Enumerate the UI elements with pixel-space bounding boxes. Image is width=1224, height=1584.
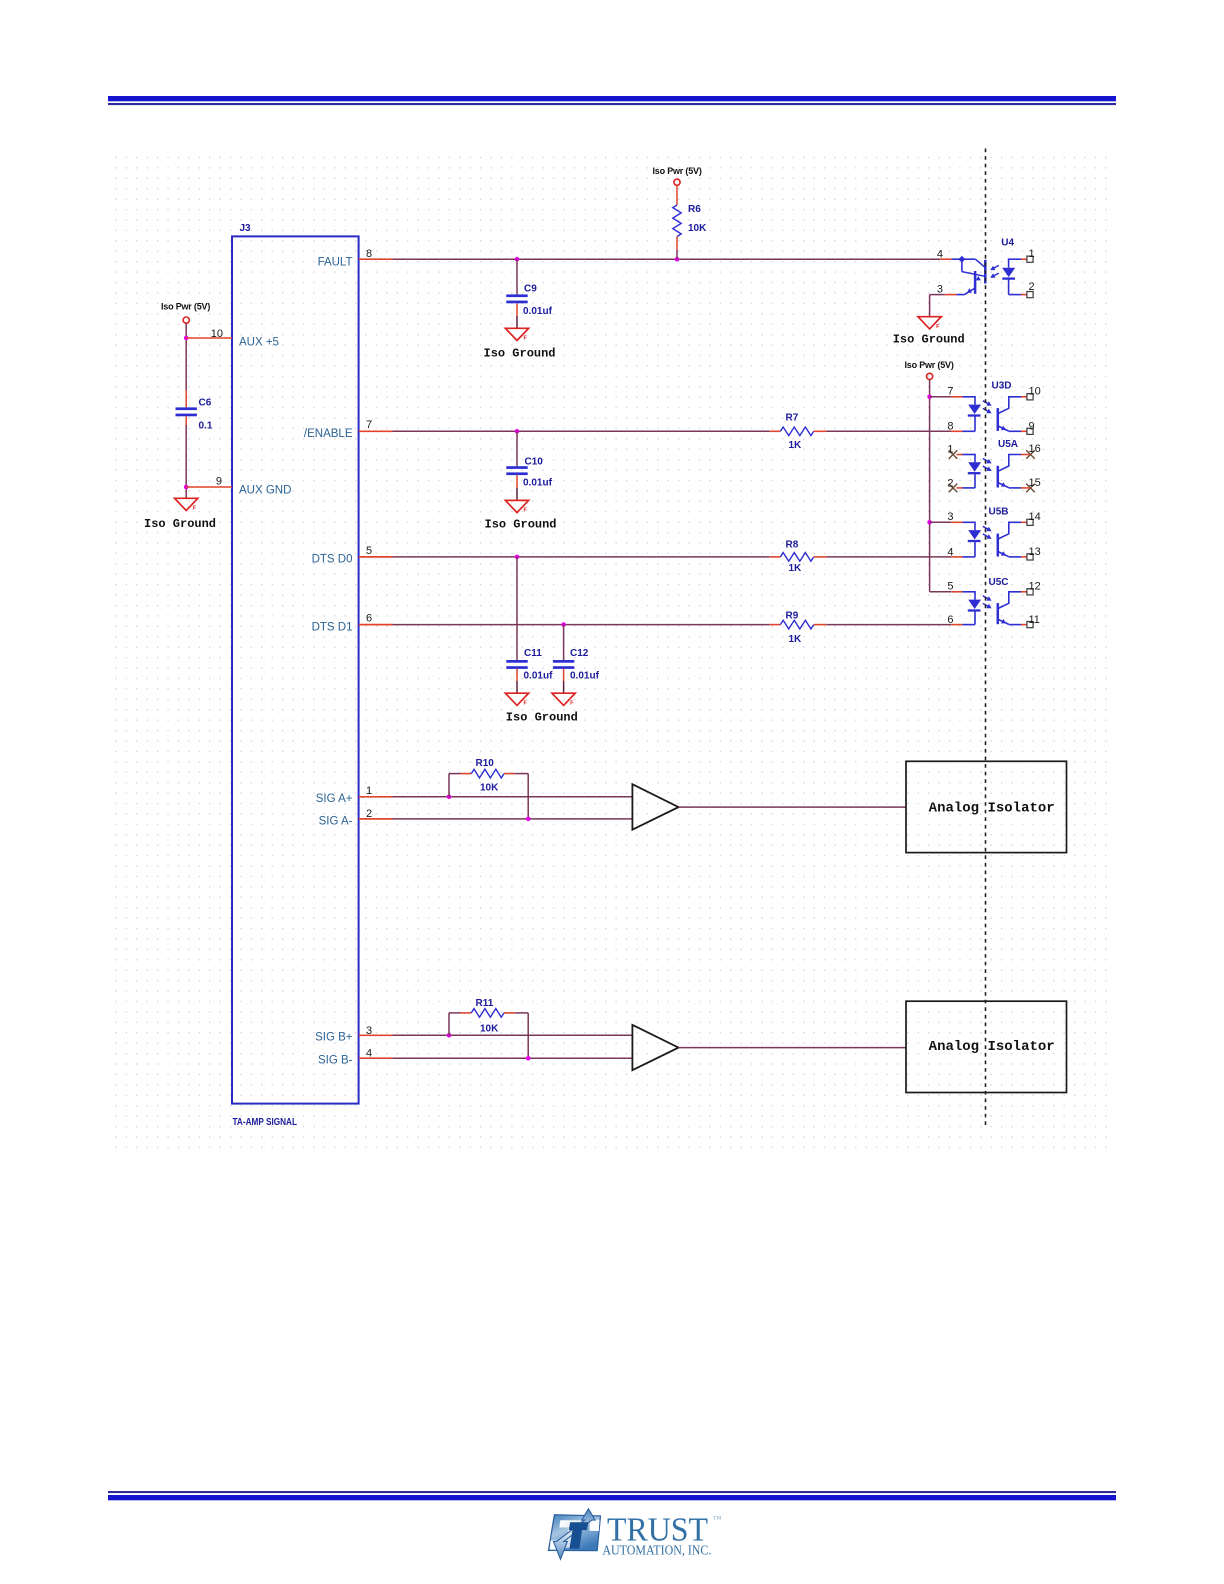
svg-text:16: 16 bbox=[1029, 443, 1041, 455]
pin 15 of U5A bbox=[1021, 487, 1027, 489]
wire U4 pin 3 to ground bbox=[957, 294, 965, 296]
svg-text:AUTOMATION, INC.: AUTOMATION, INC. bbox=[602, 1542, 711, 1557]
svg-text:4: 4 bbox=[947, 546, 953, 558]
phototransistor of U4 bbox=[952, 258, 976, 260]
resistor R11 bbox=[461, 1012, 472, 1014]
svg-text:FAULT: FAULT bbox=[318, 256, 353, 268]
capacitor C11 bbox=[506, 660, 527, 663]
no-connect X at pin (U5A) bbox=[949, 484, 958, 493]
svg-text:1: 1 bbox=[947, 443, 953, 455]
svg-text:R6: R6 bbox=[688, 204, 701, 215]
svg-text:0.01uf: 0.01uf bbox=[570, 670, 600, 681]
phototransistor of U5C bbox=[997, 603, 1000, 624]
pin stub 4 of U5B bbox=[951, 556, 962, 558]
pin 12 of U5C bbox=[1021, 591, 1027, 593]
light arrows of U5A bbox=[983, 459, 990, 463]
svg-text:Iso Ground: Iso Ground bbox=[144, 517, 216, 531]
svg-text:U5C: U5C bbox=[989, 577, 1009, 588]
node FAULT/C9 junction bbox=[515, 257, 520, 262]
capacitor C12 bbox=[553, 660, 574, 663]
node FAULT/R6 junction bbox=[675, 257, 680, 262]
isolation boundary dashed line bbox=[985, 149, 987, 1129]
wire /ENABLE net left bbox=[393, 430, 770, 432]
svg-text:C12: C12 bbox=[570, 648, 589, 659]
wire DTS D0 net right bbox=[826, 556, 951, 558]
svg-text:0.01uf: 0.01uf bbox=[524, 670, 554, 681]
node AUX +5 junction bbox=[184, 336, 189, 341]
svg-text:13: 13 bbox=[1029, 546, 1041, 558]
op-amp A bbox=[632, 784, 678, 830]
svg-text:6: 6 bbox=[947, 614, 953, 626]
pin stub 6 of U5C bbox=[951, 624, 962, 626]
svg-text:Analog Isolator: Analog Isolator bbox=[929, 1039, 1055, 1055]
wire C9 to ground bbox=[516, 303, 518, 316]
svg-text:TM: TM bbox=[713, 1516, 721, 1522]
no-connect X at pin (U5A) bbox=[1026, 484, 1035, 493]
pin 16 of U5A bbox=[1021, 454, 1027, 456]
pin square 9 of U3D bbox=[1027, 428, 1033, 434]
light arrows of U5C bbox=[983, 596, 990, 600]
svg-text:Iso Pwr (5V): Iso Pwr (5V) bbox=[161, 301, 210, 311]
LED of U5C bbox=[963, 591, 976, 593]
wire rail to U5C pin 5 bbox=[930, 591, 952, 593]
wire C10 to ground bbox=[516, 475, 518, 488]
pin 11 of U5C bbox=[1021, 624, 1027, 626]
capacitor C9 bbox=[506, 294, 527, 297]
pin stub of J3 bbox=[359, 430, 393, 432]
pin stub of J3 bbox=[359, 1034, 393, 1036]
wire rail to U5B pin 3 bbox=[930, 521, 952, 523]
resistor R8 bbox=[770, 556, 781, 558]
no-connect X at pin (U5A) bbox=[1026, 450, 1035, 459]
wire Iso Pwr rail bbox=[929, 380, 931, 592]
svg-text:0.01uf: 0.01uf bbox=[523, 478, 553, 489]
wire FAULT stub to U4 pin 4 bbox=[940, 258, 951, 260]
pin stub of J3 bbox=[359, 624, 393, 626]
svg-text:14: 14 bbox=[1029, 511, 1041, 523]
wire pin 10 AUX +5 bbox=[186, 337, 232, 339]
wire pin 9 AUX GND bbox=[186, 486, 232, 488]
svg-text:7: 7 bbox=[947, 386, 953, 398]
node SIG B+/R11 junction bbox=[447, 1033, 452, 1038]
node /ENABLE-C10 junction bbox=[515, 429, 520, 434]
pin stub of J3 bbox=[359, 556, 393, 558]
node rail/U3D pin7 junction bbox=[927, 395, 932, 400]
wire DTS D1 net left bbox=[393, 624, 770, 626]
node DTS D1/C12 junction bbox=[561, 622, 566, 627]
wire DTS D1 to C12 bbox=[563, 625, 565, 660]
svg-text:U4: U4 bbox=[1001, 237, 1014, 248]
node SIG A+/R10 junction bbox=[447, 795, 452, 800]
pin square 11 of U5C bbox=[1027, 622, 1033, 628]
pin stub 2 of U5A bbox=[957, 487, 963, 489]
svg-text:C10: C10 bbox=[525, 457, 544, 468]
ground symbol C10 bbox=[505, 500, 528, 512]
block Analog Isolator B bbox=[906, 1001, 1067, 1092]
wire C12 to ground bbox=[563, 669, 565, 681]
pin stub 8 of U3D bbox=[951, 430, 962, 432]
wire SIG A- net bbox=[393, 818, 633, 820]
svg-text:U5B: U5B bbox=[989, 507, 1009, 518]
svg-text:5: 5 bbox=[366, 545, 372, 557]
ground symbol C11 bbox=[505, 693, 528, 705]
pin 13 of U5B bbox=[1021, 556, 1027, 558]
svg-text:10K: 10K bbox=[480, 1024, 499, 1035]
resistor R7 bbox=[770, 430, 781, 432]
node SIG A-/R10 junction bbox=[526, 817, 531, 822]
wire R10 left leg bbox=[448, 774, 450, 797]
wire op-amp B output bbox=[679, 1047, 907, 1049]
node SIG B-/R11 junction bbox=[526, 1056, 531, 1061]
svg-text:12: 12 bbox=[1029, 580, 1041, 592]
wire DTS D1 net right bbox=[826, 624, 951, 626]
svg-text:11: 11 bbox=[1029, 614, 1040, 626]
svg-text:9: 9 bbox=[1029, 421, 1035, 433]
svg-text:10K: 10K bbox=[688, 223, 707, 234]
svg-text:SIG A+: SIG A+ bbox=[316, 793, 353, 805]
wire R11 right leg bbox=[515, 1012, 529, 1014]
svg-text:5: 5 bbox=[947, 581, 953, 593]
wire SIG B- net bbox=[393, 1057, 633, 1059]
page grid background bbox=[112, 151, 1114, 1151]
pin 14 of U5B bbox=[1021, 521, 1027, 523]
connector J3 bbox=[232, 236, 359, 1103]
svg-text:1: 1 bbox=[366, 785, 372, 797]
phototransistor of U3D bbox=[997, 408, 1000, 431]
phototransistor of U5B bbox=[997, 534, 1000, 557]
svg-text:C11: C11 bbox=[524, 648, 542, 659]
pin 9 of U3D bbox=[1021, 430, 1027, 432]
svg-text:1: 1 bbox=[1029, 248, 1035, 260]
wire SIG A+ net bbox=[393, 796, 633, 798]
op-amp B bbox=[632, 1025, 678, 1070]
resistor R6 bbox=[673, 205, 681, 237]
svg-text:2: 2 bbox=[1029, 281, 1035, 293]
wire R6 to FAULT bbox=[676, 237, 678, 251]
svg-text:AUX +5: AUX +5 bbox=[239, 336, 279, 348]
svg-text:SIG B-: SIG B- bbox=[318, 1055, 353, 1067]
svg-text:3: 3 bbox=[947, 511, 953, 523]
top double rule bbox=[108, 96, 1116, 101]
LED of U5A bbox=[963, 454, 976, 456]
svg-text:4: 4 bbox=[937, 248, 943, 260]
svg-text:/ENABLE: /ENABLE bbox=[304, 428, 353, 440]
svg-text:C9: C9 bbox=[524, 284, 537, 295]
svg-text:1K: 1K bbox=[789, 634, 803, 645]
light arrows of U3D bbox=[983, 401, 990, 405]
wire op-amp A output bbox=[679, 806, 907, 808]
ground symbol C12 bbox=[552, 693, 575, 705]
svg-text:7: 7 bbox=[366, 419, 372, 431]
svg-text:DTS D1: DTS D1 bbox=[312, 622, 353, 634]
svg-text:J3: J3 bbox=[240, 223, 252, 234]
LED of U3D bbox=[963, 396, 976, 398]
LED of U4 bbox=[1009, 258, 1021, 260]
svg-text:8: 8 bbox=[947, 421, 953, 433]
pin stub of J3 bbox=[359, 1057, 393, 1059]
svg-text:Analog Isolator: Analog Isolator bbox=[929, 801, 1055, 817]
svg-text:R8: R8 bbox=[786, 540, 799, 551]
svg-text:R11: R11 bbox=[476, 998, 494, 1009]
pin square 10 of U3D bbox=[1027, 394, 1033, 400]
node rail/U5B pin3 junction bbox=[927, 520, 932, 525]
svg-text:U5A: U5A bbox=[998, 439, 1018, 450]
svg-text:Iso Ground: Iso Ground bbox=[506, 711, 578, 725]
svg-text:R10: R10 bbox=[476, 758, 495, 769]
capacitor C10 bbox=[506, 466, 527, 469]
svg-text:R9: R9 bbox=[786, 611, 799, 622]
svg-text:2: 2 bbox=[366, 808, 372, 820]
svg-text:15: 15 bbox=[1029, 477, 1041, 489]
pin 10 of U3D bbox=[1021, 396, 1027, 398]
svg-text:0.01uf: 0.01uf bbox=[523, 306, 553, 317]
wire power to C6 bbox=[185, 323, 187, 390]
svg-text:9: 9 bbox=[216, 475, 222, 487]
ground symbol left bbox=[175, 498, 198, 510]
pin square 12 of U5C bbox=[1027, 589, 1033, 595]
svg-text:R7: R7 bbox=[786, 413, 799, 424]
bottom double rule bbox=[108, 1491, 1116, 1493]
svg-text:0.1: 0.1 bbox=[199, 420, 213, 431]
svg-text:SIG B+: SIG B+ bbox=[315, 1032, 353, 1044]
svg-text:TA-AMP SIGNAL: TA-AMP SIGNAL bbox=[233, 1117, 298, 1128]
node DTS D0/C11 junction bbox=[515, 555, 520, 560]
wire C11 to ground bbox=[516, 669, 518, 681]
pin 1 of U4 bbox=[1021, 258, 1027, 260]
svg-text:Iso Ground: Iso Ground bbox=[484, 346, 556, 360]
wire R10 right leg bbox=[515, 773, 529, 775]
LED of U5B bbox=[963, 521, 976, 523]
svg-text:Iso Ground: Iso Ground bbox=[893, 333, 965, 347]
wire DTS D0 net left bbox=[393, 556, 770, 558]
phototransistor of U5A bbox=[997, 466, 1000, 488]
wire /ENABLE to C10 bbox=[516, 431, 518, 466]
node AUX GND junction bbox=[184, 485, 189, 490]
svg-text:Iso Pwr (5V): Iso Pwr (5V) bbox=[905, 360, 954, 370]
pin 2 of U4 bbox=[1021, 294, 1027, 296]
no-connect X at pin (U5A) bbox=[949, 450, 958, 459]
pin square 14 of U5B bbox=[1027, 519, 1033, 525]
wire FAULT to C9 bbox=[516, 259, 518, 294]
svg-text:C6: C6 bbox=[199, 397, 212, 408]
ground symbol C9 bbox=[505, 328, 528, 340]
svg-text:Iso Ground: Iso Ground bbox=[485, 517, 557, 531]
Trust Automation logo icon bbox=[549, 1509, 601, 1560]
svg-text:1K: 1K bbox=[789, 440, 803, 451]
svg-text:Iso Pwr (5V): Iso Pwr (5V) bbox=[653, 166, 702, 176]
pin stub 1 of U5A bbox=[957, 454, 963, 456]
resistor R10 bbox=[461, 773, 472, 775]
ground symbol U4 bbox=[918, 317, 941, 329]
svg-text:2: 2 bbox=[947, 477, 953, 489]
wire power to R6 bbox=[676, 185, 678, 205]
svg-text:AUX GND: AUX GND bbox=[239, 484, 291, 496]
wire SIG B+ net bbox=[393, 1034, 633, 1036]
pin stub of J3 bbox=[359, 818, 393, 820]
svg-text:3: 3 bbox=[937, 284, 943, 296]
wire rail to U3D pin 7 bbox=[930, 396, 952, 398]
svg-text:10: 10 bbox=[1029, 385, 1041, 397]
resistor R9 bbox=[770, 624, 781, 626]
block Analog Isolator A bbox=[906, 761, 1067, 852]
svg-text:10K: 10K bbox=[480, 783, 499, 794]
pin stub of J3 bbox=[359, 796, 393, 798]
svg-text:6: 6 bbox=[366, 612, 372, 624]
light arrows of U4 bbox=[992, 265, 999, 269]
capacitor C6 bbox=[176, 407, 197, 410]
light arrows of U5B bbox=[983, 526, 990, 530]
svg-text:U3D: U3D bbox=[992, 380, 1012, 391]
wire R11 left leg bbox=[448, 1013, 450, 1035]
wire FAULT net bbox=[393, 258, 941, 260]
wire DTS D0 to C11 bbox=[516, 557, 518, 660]
svg-text:DTS D0: DTS D0 bbox=[312, 554, 353, 566]
wire /ENABLE net right bbox=[826, 430, 951, 432]
pin square 13 of U5B bbox=[1027, 554, 1033, 560]
svg-text:1K: 1K bbox=[789, 563, 803, 574]
wire C6 to ground bbox=[185, 416, 187, 425]
svg-text:SIG A-: SIG A- bbox=[319, 816, 353, 828]
pin stub of J3 bbox=[359, 258, 393, 260]
